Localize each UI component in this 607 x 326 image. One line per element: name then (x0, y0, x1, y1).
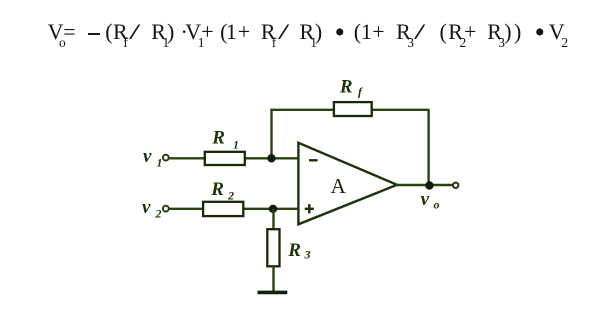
wire R3 to ground (272, 266, 274, 291)
svg-text:2: 2 (155, 207, 162, 221)
node vo output terminal (453, 183, 458, 188)
svg-text:A: A (331, 174, 347, 198)
resistor R3 (267, 229, 279, 266)
wire v1 to R1 (169, 157, 205, 159)
svg-text:R: R (287, 240, 301, 261)
resistor Rf (334, 102, 372, 116)
svg-text:v: v (142, 197, 151, 218)
junction node at non-inverting input (269, 205, 277, 213)
ground (258, 291, 288, 295)
svg-text:2: 2 (227, 188, 234, 202)
op-amp minus sign (309, 159, 318, 161)
wire R2 to op-amp non-inverting input (244, 208, 299, 210)
op-amp plus sign (305, 208, 314, 210)
svg-text:R: R (211, 128, 225, 149)
resistor R1 (205, 152, 245, 165)
wire junction down to R3 (272, 209, 274, 230)
svg-text:1: 1 (157, 156, 163, 170)
junction node at inverting input (267, 154, 275, 162)
wire v2 to R2 (169, 208, 204, 210)
wire top feedback horizontal (270, 109, 428, 111)
svg-text:1: 1 (233, 138, 239, 152)
svg-text:3: 3 (304, 248, 311, 262)
svg-text:R: R (210, 179, 224, 200)
junction node at output (425, 181, 433, 189)
wire R1 to op-amp inverting input (245, 157, 299, 159)
svg-text:R: R (339, 76, 353, 97)
node v2 input terminal (163, 206, 169, 212)
svg-text:v: v (143, 146, 152, 167)
wire junction A up to feedback (270, 109, 272, 159)
wire output (397, 184, 453, 186)
svg-text:o: o (434, 197, 440, 211)
formula Vo = -(Rf/R1)V1+(1+Rf/R1)(1+R3/(R2+R3))V2 (0, 0, 1, 1)
svg-text:f: f (358, 85, 363, 99)
resistor R2 (203, 202, 243, 216)
node v1 input terminal (163, 155, 169, 161)
op-amp U1 triangle (298, 143, 397, 225)
svg-text:v: v (421, 189, 430, 210)
wire feedback down to output node (427, 109, 429, 186)
